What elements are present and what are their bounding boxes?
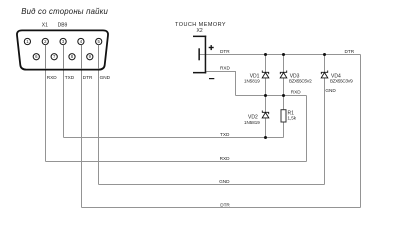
svg-text:RXD: RXD (47, 75, 58, 80)
svg-text:GND: GND (325, 88, 336, 93)
svg-text:DTR: DTR (220, 49, 230, 54)
svg-text:1N5819: 1N5819 (244, 120, 260, 125)
svg-text:BZX55C5V2: BZX55C5V2 (289, 79, 312, 84)
svg-text:TXD: TXD (65, 75, 75, 80)
svg-text:DTR: DTR (220, 203, 230, 208)
svg-text:X1: X1 (42, 22, 48, 28)
svg-text:DTR: DTR (83, 75, 93, 80)
svg-text:1,5k: 1,5k (288, 116, 297, 121)
svg-text:DTR: DTR (345, 49, 355, 54)
svg-text:DB9: DB9 (58, 22, 68, 28)
svg-text:X2: X2 (197, 28, 203, 34)
svg-text:RXD: RXD (291, 90, 302, 95)
svg-text:BZX55C3V9: BZX55C3V9 (330, 79, 353, 84)
svg-text:GND: GND (219, 179, 230, 184)
svg-text:RXD: RXD (220, 66, 231, 71)
svg-text:TXD: TXD (220, 132, 230, 137)
svg-text:RXD: RXD (220, 156, 231, 161)
svg-text:GND: GND (100, 75, 111, 80)
svg-text:Вид со стороны пайки: Вид со стороны пайки (21, 7, 108, 16)
svg-text:TOUCH MEMORY: TOUCH MEMORY (175, 22, 226, 28)
svg-text:1N5819: 1N5819 (244, 79, 260, 84)
